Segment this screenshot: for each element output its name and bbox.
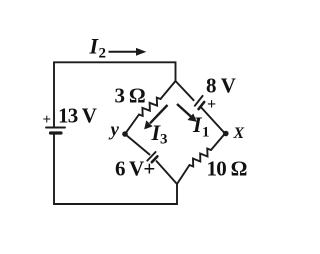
wire node Y to 6V battery: [125, 134, 150, 155]
battery 8V long plate: [195, 96, 203, 106]
wire 6V battery to bottom node: [157, 161, 178, 184]
current arrow I3: [150, 105, 168, 123]
wire 3-ohm resistor to node Y: [125, 115, 139, 135]
battery 13V short plate: [51, 131, 62, 134]
node X dot: [223, 131, 229, 137]
svg-text:8 V: 8 V: [206, 74, 236, 98]
current arrow I2: [109, 51, 139, 53]
svg-text:6 V+: 6 V+: [115, 157, 155, 181]
wire 8V battery to node X: [202, 108, 225, 134]
svg-text:+: +: [207, 96, 216, 113]
wire arm T to 3-ohm resistor: [161, 81, 176, 99]
battery 6V long plate: [147, 152, 155, 161]
svg-text:13 V: 13 V: [58, 104, 97, 128]
svg-text:+: +: [43, 112, 52, 128]
wire 10-ohm resistor to node X: [211, 134, 225, 151]
resistor R 10-ohm: [190, 149, 212, 167]
svg-text:1: 1: [202, 125, 210, 141]
svg-text:3 Ω: 3 Ω: [115, 84, 145, 108]
node Y dot: [122, 131, 128, 137]
wire T to 8V battery: [176, 81, 194, 100]
svg-text:2: 2: [99, 46, 107, 62]
svg-text:3: 3: [160, 132, 168, 148]
battery 6V short plate: [152, 156, 158, 162]
svg-text:y: y: [109, 120, 120, 141]
svg-text:X: X: [233, 125, 245, 142]
resistor R 3-ohm: [139, 98, 161, 116]
wire bottom: battery bottom to bottom-left corner to bottom node stub: [54, 134, 177, 204]
battery 8V short plate: [199, 102, 205, 109]
wire bottom node to 10-ohm resistor: [177, 165, 190, 184]
wire top: top-left corner to top node stub: [54, 62, 176, 127]
battery 13V long plate: [46, 127, 65, 129]
svg-text:10 Ω: 10 Ω: [207, 157, 247, 181]
current arrow I1: [177, 104, 191, 117]
